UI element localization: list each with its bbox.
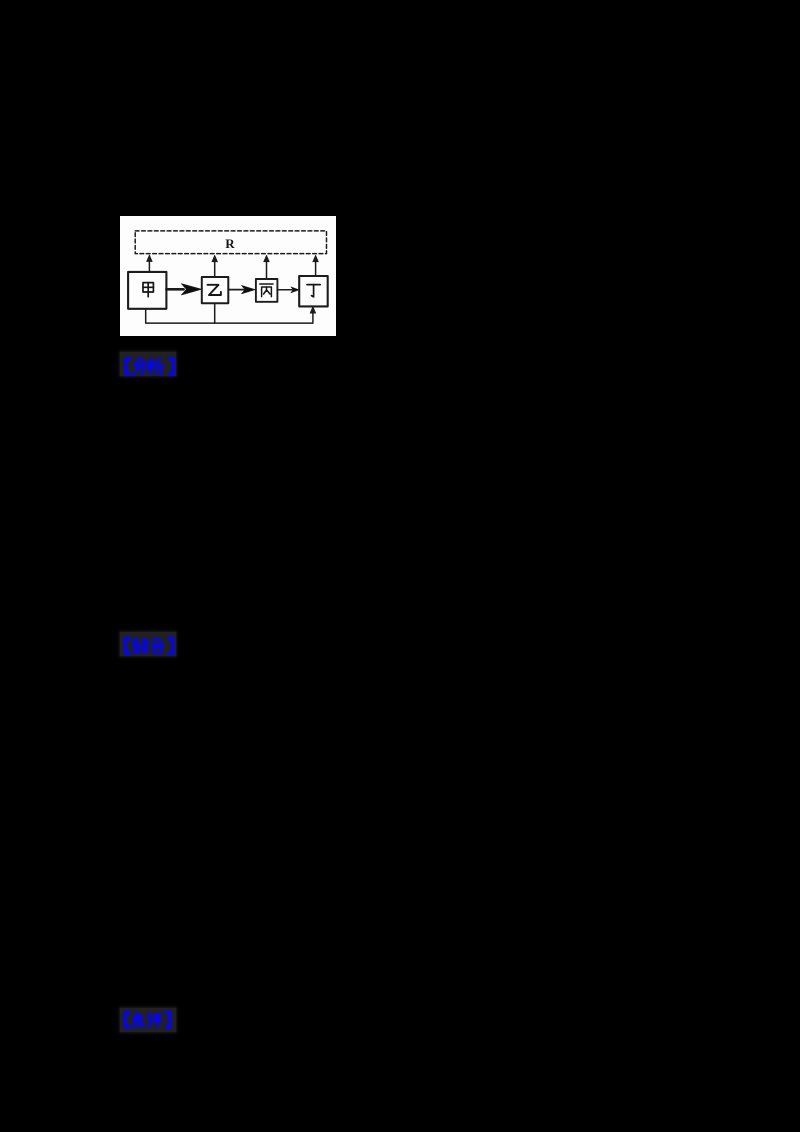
label 【解答】 (blue, blurred scan): [120, 632, 176, 656]
arrow 丁→R (up): [312, 255, 318, 276]
arrow 丙→R (up): [263, 255, 269, 279]
label 【点评】 (blue, blurred scan): [120, 1008, 176, 1032]
arrow 丙→丁: [277, 286, 299, 292]
dashed box R: [135, 230, 326, 253]
wire 乙 bottom to feedback: [213, 303, 215, 323]
arrow 甲→R (up): [146, 255, 152, 272]
wire 甲 bottom feedback: [145, 308, 312, 322]
arrow 甲→乙 (thick): [166, 283, 201, 294]
svg-text:R: R: [225, 235, 235, 250]
block 丙: [255, 279, 277, 302]
label 【分析】 (blue, blurred scan): [120, 352, 176, 376]
block 甲: [128, 271, 166, 308]
arrowhead into 丁 bottom: [310, 306, 316, 313]
block 丁: [299, 276, 328, 306]
arrow 乙→R (up): [211, 255, 217, 277]
block 乙: [201, 277, 228, 303]
scanned flow-diagram image (white background): [120, 216, 337, 337]
arrow 乙→丙: [228, 285, 255, 293]
